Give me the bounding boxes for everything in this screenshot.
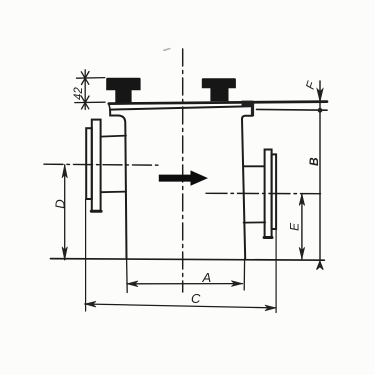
dim A arrow left <box>127 281 138 287</box>
svg-text:B: B <box>307 157 321 166</box>
svg-text:A: A <box>201 270 211 285</box>
C extension left <box>85 199 87 311</box>
lid top line <box>109 102 327 104</box>
dim F/B vertical line <box>319 81 321 261</box>
right stub top <box>244 165 265 167</box>
dim C line <box>85 304 276 308</box>
body left neck and wall <box>110 110 126 259</box>
dim B caret up at bottom <box>317 261 324 269</box>
lid bottom line <box>110 106 251 109</box>
vertical center line <box>182 49 184 292</box>
left flange inner plate bottom thick <box>91 210 101 213</box>
dim D arrow bottom <box>62 247 67 260</box>
right flange outer plate <box>272 154 277 229</box>
dim 42 extension top <box>77 77 105 80</box>
body right shoulder and wall <box>242 116 253 259</box>
lid step edge <box>251 102 254 117</box>
svg-text:E: E <box>288 222 302 231</box>
C extension right <box>275 229 277 312</box>
body bottom line <box>51 259 325 261</box>
dim E arrow bottom <box>299 247 305 259</box>
right outlet center line <box>206 192 321 194</box>
left flange inner plate <box>92 120 101 212</box>
dim 42 extension bottom <box>75 101 105 103</box>
right stub bottom <box>244 221 266 223</box>
A extension left <box>126 259 129 293</box>
dim A line <box>127 283 242 285</box>
lid thick blob <box>242 101 254 107</box>
dim C arrow left <box>85 301 96 307</box>
dim A arrow right <box>231 281 242 287</box>
svg-text:42: 42 <box>73 87 85 100</box>
lid left cap <box>109 104 110 110</box>
dim F arrow down at lid <box>317 88 323 101</box>
faint stray mark <box>164 49 170 51</box>
dim 42 arrow top <box>81 72 89 85</box>
dim E arrow top <box>299 194 305 206</box>
left stub top <box>101 136 126 137</box>
left stub bottom <box>101 191 126 194</box>
dim D arrow top <box>62 165 67 178</box>
right flange inner plate bottom thick <box>264 236 272 239</box>
junction dot <box>318 108 323 113</box>
svg-text:C: C <box>191 291 201 306</box>
knob T2 (right) <box>202 78 236 101</box>
dim E line <box>301 194 303 259</box>
dim C arrow right <box>265 305 276 311</box>
svg-text:F: F <box>303 79 319 91</box>
left flange outer plate <box>86 128 92 199</box>
flow arrow <box>159 170 208 185</box>
dim 42 arrow bottom <box>81 96 89 109</box>
left inlet center line <box>44 164 161 165</box>
A extension right <box>243 259 245 290</box>
dim D line <box>64 165 66 260</box>
dim 42 line <box>84 70 86 110</box>
lid collar line right <box>257 108 328 111</box>
svg-text:D: D <box>53 199 68 208</box>
knob T1 (left) <box>106 78 140 103</box>
right flange inner plate <box>265 150 272 238</box>
